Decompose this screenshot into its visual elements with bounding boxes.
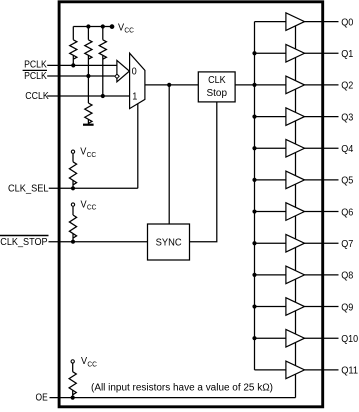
wire mux output <box>145 84 198 86</box>
wire SYNC output to CLK Stop control <box>190 102 217 242</box>
output buffer Q5 <box>286 171 305 189</box>
pull-up resistor on nPCLK (25k) <box>85 27 92 77</box>
wire Q11 input <box>255 369 286 371</box>
Vcc terminal (CLK_STOP pull-up) <box>71 203 74 206</box>
wire CCLK <box>47 95 129 97</box>
wire Q6 input <box>255 211 286 213</box>
wire Q2 input <box>255 84 286 86</box>
SYNC block <box>148 224 190 260</box>
junction CCLK/pullup <box>101 94 105 98</box>
CLK Stop block <box>198 72 235 102</box>
junction PCLK/pullup <box>71 63 75 67</box>
svg-text:Q3: Q3 <box>341 111 353 123</box>
wire Q4 output <box>305 147 339 149</box>
wire Q3 output <box>305 116 339 118</box>
wire CLK_SEL to mux select <box>137 104 139 189</box>
svg-text:CC: CC <box>87 203 97 212</box>
junction distribution/Q1 <box>252 51 256 55</box>
junction OE/pullup <box>71 396 75 400</box>
svg-text:CCLK: CCLK <box>25 91 49 102</box>
wire Q5 output <box>305 179 339 181</box>
mux (clock select) <box>130 53 145 108</box>
output buffer Q3 <box>286 108 305 126</box>
pull-up resistor on PCLK (25k) <box>70 27 77 66</box>
wire Q0 output <box>305 21 339 23</box>
svg-text:PCLK: PCLK <box>24 60 47 71</box>
wire Q6 output <box>305 211 339 213</box>
wire PCLK <box>47 64 117 66</box>
junction CLK Stop / distribution <box>252 83 256 87</box>
output buffer Q1 <box>286 44 305 62</box>
Vcc terminal dot <box>110 24 115 29</box>
wire nPCLK <box>47 75 115 77</box>
wire Q1 input <box>255 52 286 54</box>
junction distribution/Q6 <box>252 209 256 213</box>
wire Q0 input <box>255 21 286 23</box>
wire Q8 output <box>305 274 339 276</box>
output buffer Q10 <box>286 329 305 347</box>
output buffer Q2 <box>286 76 305 94</box>
wire CLK_STOP <box>49 241 148 243</box>
wire Q3 input <box>255 116 286 118</box>
junction distribution/Q7 <box>252 241 256 245</box>
wire CLK Stop output <box>235 84 254 86</box>
Vcc terminal (CLK_SEL pull-up) <box>71 150 74 153</box>
wire CLK_SEL <box>49 187 138 189</box>
output buffer Q4 <box>286 139 305 157</box>
svg-text:CC: CC <box>124 26 134 35</box>
pull-up resistor on CCLK (25k) <box>99 27 106 97</box>
wire Q7 output <box>305 242 339 244</box>
svg-text:Q5: Q5 <box>341 175 353 187</box>
wire Q4 input <box>255 147 286 149</box>
svg-text:Q4: Q4 <box>341 143 353 155</box>
wire Q5 input <box>255 179 286 181</box>
wire clock distribution <box>254 22 256 370</box>
junction distribution/Q9 <box>252 304 256 308</box>
junction CLK_STOP/pullup <box>71 240 75 244</box>
junction distribution/Q5 <box>252 178 256 182</box>
wire OE <box>50 397 296 399</box>
junction CLK_SEL/pullup <box>71 186 75 190</box>
svg-text:SYNC: SYNC <box>156 238 182 249</box>
svg-text:CLK: CLK <box>208 75 226 86</box>
svg-text:PCLK: PCLK <box>24 71 47 82</box>
pull-up resistor on CLK_SEL (25k) <box>69 154 76 189</box>
pull-up resistor on OE (25k) <box>69 363 76 397</box>
junction distribution/Q8 <box>252 273 256 277</box>
wire Q1 output <box>305 52 339 54</box>
svg-text:Q9: Q9 <box>341 301 353 313</box>
junction nPCLK/pullup <box>86 74 90 78</box>
pull-down resistor on nPCLK (25k) <box>85 76 92 124</box>
wire Q10 output <box>305 337 339 339</box>
junction mux output / sync tap <box>167 83 171 87</box>
svg-text:OE: OE <box>36 393 48 404</box>
junction rail/col3 <box>101 24 105 28</box>
output buffer Q11 <box>286 361 305 379</box>
output buffer Q8 <box>286 266 305 284</box>
Vcc terminal (OE pull-up) <box>71 360 74 363</box>
wire Q8 input <box>255 274 286 276</box>
wire Q11 output <box>305 369 339 371</box>
svg-text:CLK_STOP: CLK_STOP <box>0 237 48 248</box>
wire mux output to SYNC clock input <box>168 85 170 224</box>
pull-up resistor on CLK_STOP (25k) <box>69 207 76 242</box>
junction distribution/Q10 <box>252 336 256 340</box>
output buffer Q0 <box>286 13 305 31</box>
wire Q10 input <box>255 337 286 339</box>
svg-text:Q8: Q8 <box>341 270 353 282</box>
svg-text:CLK_SEL: CLK_SEL <box>8 184 49 195</box>
output buffer Q6 <box>286 203 305 221</box>
svg-text:(All input resistors have a va: (All input resistors have a value of 25 … <box>91 383 273 394</box>
wire Q7 input <box>255 242 286 244</box>
junction distribution/Q4 <box>252 146 256 150</box>
svg-text:Stop: Stop <box>207 88 228 99</box>
svg-text:Q2: Q2 <box>341 80 353 92</box>
svg-text:0: 0 <box>132 67 138 78</box>
svg-text:Q7: Q7 <box>341 238 353 250</box>
wire Q2 output <box>305 84 339 86</box>
output buffer Q9 <box>286 298 305 316</box>
svg-text:Q0: Q0 <box>341 16 353 28</box>
wire output-enable (behind buffers) <box>295 22 297 398</box>
svg-text:1: 1 <box>132 92 138 103</box>
wire Q9 input <box>255 306 286 308</box>
svg-text:Q11: Q11 <box>341 365 358 377</box>
Vcc rail wire <box>73 26 112 28</box>
wire Q9 output <box>305 306 339 308</box>
svg-text:Q1: Q1 <box>341 48 353 60</box>
svg-text:CC: CC <box>87 360 97 369</box>
svg-text:Q10: Q10 <box>341 333 358 345</box>
IC boundary box <box>59 2 323 407</box>
ground <box>83 124 94 126</box>
differential input buffer <box>117 60 129 81</box>
output buffer Q7 <box>286 234 305 252</box>
inverting-input bubble <box>115 74 119 78</box>
junction rail/col2 <box>86 24 90 28</box>
svg-text:CC: CC <box>87 150 97 159</box>
svg-text:Q6: Q6 <box>341 206 353 218</box>
junction distribution/Q3 <box>252 114 256 118</box>
